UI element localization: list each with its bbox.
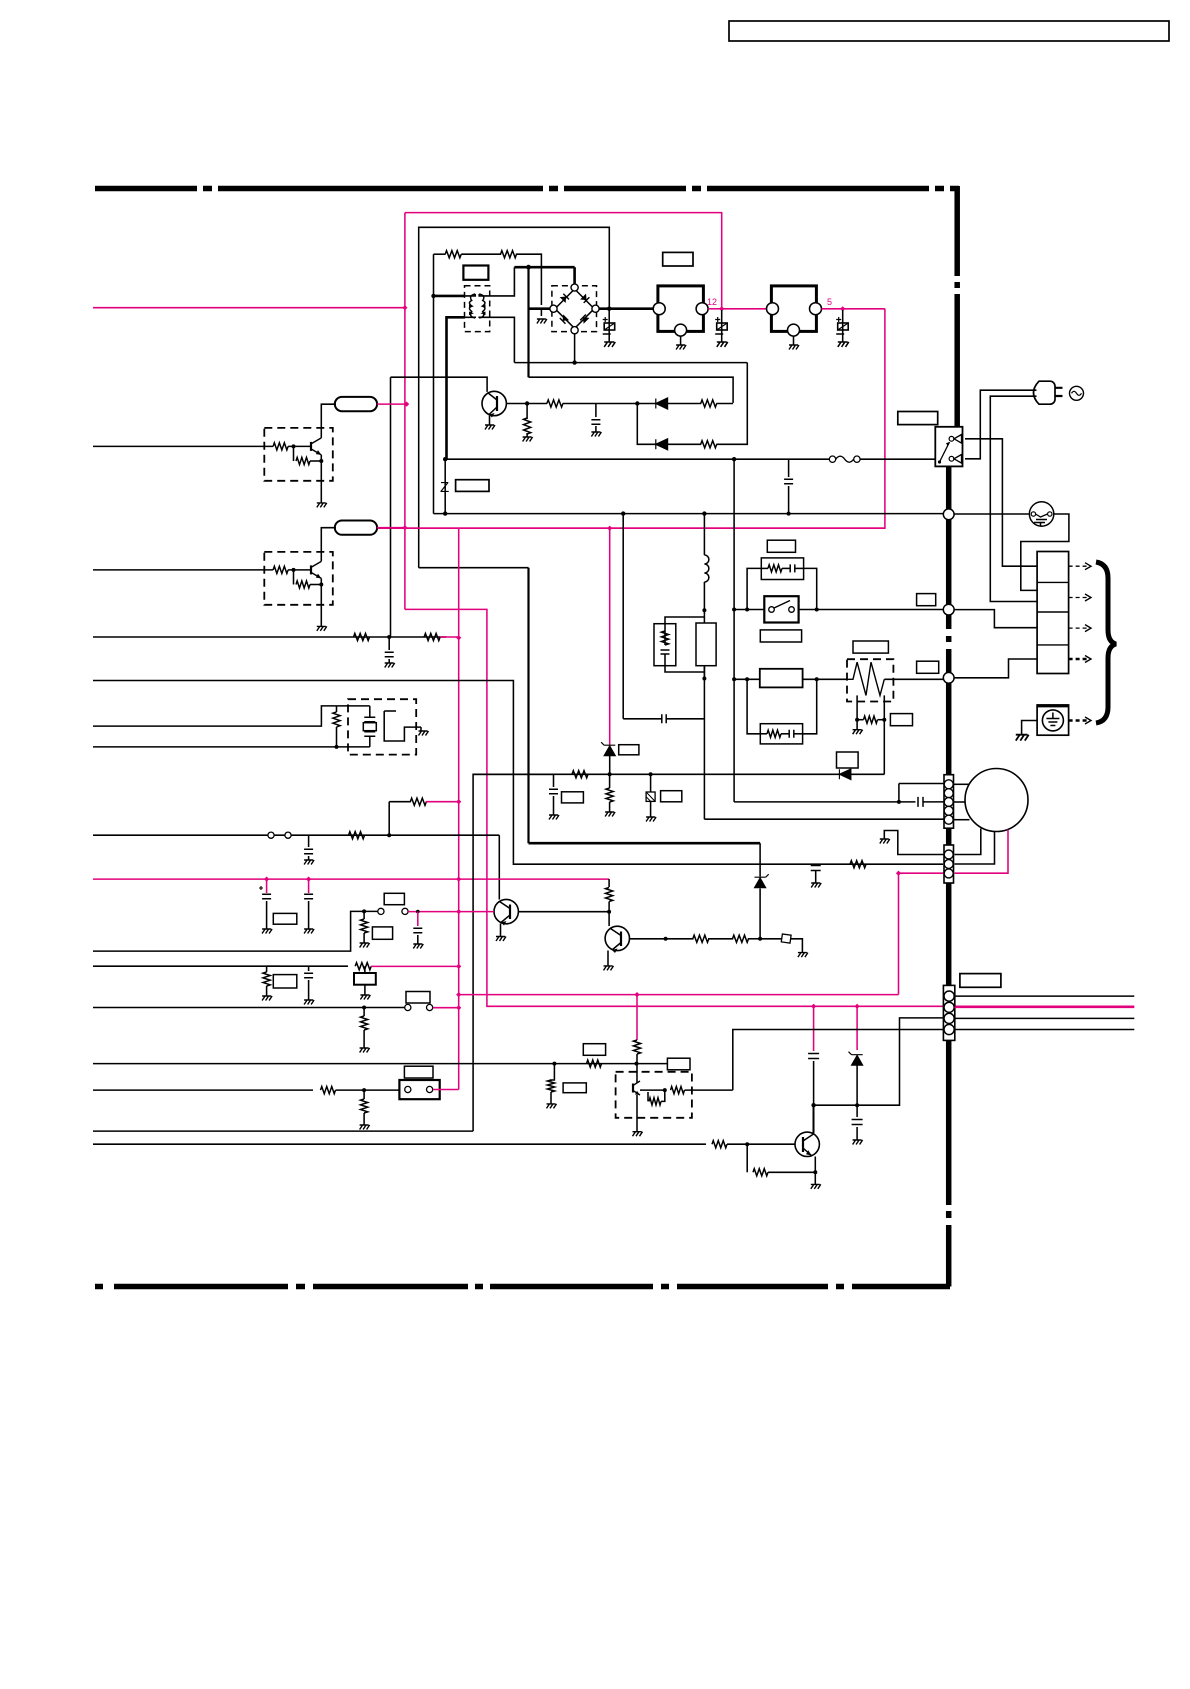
- resistor R q3 base 1: [693, 935, 709, 942]
- wire plug lead 1: [965, 390, 1037, 459]
- wire regulator U2 gnd: [793, 336, 795, 345]
- wire feedback inner rail: [529, 377, 734, 403]
- node junction 5v rail x609: [607, 526, 612, 531]
- ac source symbol: [1070, 386, 1084, 400]
- resistor R feedback lower: [701, 441, 717, 448]
- node junction Q11: [292, 568, 296, 572]
- resistor Q10 base: [273, 443, 288, 450]
- relay label box: [898, 412, 938, 425]
- transistor Q10: [310, 442, 312, 451]
- transformer T1 label box: [463, 266, 488, 280]
- zener D z1: [759, 889, 761, 939]
- ground sw2 res: [360, 943, 370, 948]
- node junction zener: [758, 937, 762, 941]
- wire Q10 emitter gnd: [320, 455, 322, 503]
- transistor Q12: [632, 1084, 634, 1093]
- wire dt3 base: [640, 1089, 665, 1091]
- wire line5: [93, 834, 499, 836]
- elco C rail a: [264, 877, 269, 882]
- thermal protector TP1: [1029, 502, 1053, 526]
- node junction line9 b: [635, 1062, 639, 1066]
- capacitor C feedback: [595, 404, 597, 418]
- ground cap 774: [549, 815, 559, 820]
- wire out pin1: [955, 995, 1135, 997]
- node junction 5: [840, 306, 845, 311]
- wire magenta logic rail: [93, 878, 609, 880]
- node junction rail 801: [456, 799, 461, 804]
- line9 label box: [667, 1058, 690, 1070]
- regulator U1 12V: [658, 286, 704, 332]
- wire heater right drop: [883, 695, 885, 774]
- wire thick aux rail: [529, 842, 761, 845]
- resistor R line5: [349, 832, 365, 839]
- ground regulator U1: [676, 345, 686, 350]
- resistor Q10 feedback: [293, 446, 295, 461]
- resistor Q11 feedback: [293, 570, 295, 585]
- capacitor C x623: [662, 714, 666, 723]
- connector block CN1: [1037, 552, 1069, 674]
- wire 813 to pin3: [814, 1018, 943, 1105]
- wire Q1 emitter gnd: [489, 416, 491, 425]
- wire 554 drop: [551, 1064, 554, 1081]
- wire cn2b pin1 left: [884, 831, 944, 855]
- wire magenta rail 1006 diamonds: [811, 1004, 816, 1009]
- wire fuse to relay: [860, 458, 936, 460]
- node junction heater right: [815, 677, 819, 681]
- svg-text:12: 12: [707, 297, 717, 307]
- diode D feedback lower: [656, 439, 668, 450]
- wire plug lead 2: [990, 396, 1037, 601]
- digital transistor Q10 dashed box: [264, 428, 333, 481]
- wire line 1131: [93, 1130, 473, 1132]
- wire line6: [93, 911, 378, 951]
- wire line10: [93, 1089, 313, 1091]
- node junction 650: [649, 772, 653, 776]
- wire dt3 emitter gnd: [636, 1095, 638, 1132]
- title block box: [729, 21, 1169, 41]
- transformer T1: [465, 286, 490, 332]
- wire border to protector: [954, 513, 1030, 515]
- wire magenta pill1 out: [377, 403, 405, 405]
- digital transistor Q11 dashed box: [264, 552, 333, 605]
- crystal X1: [369, 706, 371, 717]
- wire motor bottom 2: [955, 831, 995, 864]
- wire pin4 to DT Q12: [733, 1030, 943, 1091]
- snubber RC box: [654, 624, 676, 666]
- node border terminal protector: [943, 509, 954, 520]
- node junction neutral x704: [702, 511, 706, 515]
- resistor R line8 gnd: [363, 1008, 365, 1017]
- wire secondary thick top link: [514, 266, 574, 269]
- wire rc heater wiring: [747, 679, 760, 734]
- resistor R line10: [321, 1087, 336, 1094]
- wire Q4 collector: [813, 1105, 815, 1133]
- wire magenta 5V rail: [405, 527, 885, 529]
- connector CN2a on border: [944, 775, 954, 829]
- cap C 975: [308, 966, 310, 971]
- wire line7: [93, 965, 348, 967]
- bridge rectifier D1 diamond: [555, 289, 594, 328]
- wire Q2 emitter gnd: [500, 924, 502, 937]
- wire line8: [93, 1007, 405, 1009]
- ground q1 base: [523, 437, 533, 442]
- resistor R q4 fb: [746, 1144, 748, 1172]
- wire magenta motor link: [899, 872, 945, 874]
- wire magenta 12V to rail: [405, 609, 1134, 1006]
- connector CN2b on border: [944, 845, 954, 883]
- capacitor C motor line: [918, 797, 923, 807]
- capacitor C bridge out electrolytic: [608, 310, 610, 342]
- resistor R dt3 base: [671, 1087, 685, 1094]
- schematic border top (dash-dot): [95, 186, 959, 192]
- wire bridge left to ground: [528, 307, 550, 310]
- resistor R sw2 gnd: [363, 911, 365, 919]
- node junction z-link top: [443, 457, 447, 461]
- node junction (404.9,307.7): [402, 305, 407, 310]
- wire ground terminal lead: [1022, 721, 1038, 735]
- wire relay to connector pin1: [965, 439, 1037, 566]
- wire heater drop to cap line: [733, 679, 735, 802]
- ground 551: [547, 1104, 557, 1109]
- link Z label box: [456, 480, 489, 492]
- wire snubber wiring: [665, 617, 704, 624]
- switch SW3 label box: [406, 992, 430, 1004]
- wire regulator U1 gnd: [680, 336, 682, 345]
- node junction 857: [855, 1103, 859, 1107]
- node junction Q10 emitter: [319, 459, 323, 463]
- transistor Q1: [482, 391, 506, 415]
- wire magenta line1 to rail: [440, 636, 459, 638]
- node junction heater left: [732, 677, 736, 681]
- ground q4: [811, 1184, 821, 1189]
- crystal X1 dashed box: [348, 699, 416, 754]
- wire long dc rail x528: [527, 568, 529, 844]
- node junction sw left: [732, 608, 736, 612]
- wire q1 collector from rail: [391, 377, 488, 392]
- node junction rail 879: [456, 877, 461, 882]
- resistor R q_c base: [712, 1141, 727, 1148]
- wire out pin3: [955, 1017, 1135, 1019]
- wire magenta out pin2: [955, 1006, 1135, 1008]
- ground feedback cap: [591, 432, 601, 437]
- thermistor pill TH2: [335, 521, 377, 535]
- r975 label box: [273, 975, 297, 988]
- wire heater to border: [884, 678, 943, 680]
- capacitor C 911 magenta: [417, 912, 419, 926]
- wire heater bottom left: [856, 695, 858, 719]
- resistor R q3 base 2: [733, 935, 749, 942]
- wire Q10 collector: [321, 404, 336, 438]
- wire bead gnd: [791, 939, 803, 953]
- fuse F1: [734, 458, 830, 460]
- wire feedback lower branch: [637, 404, 656, 445]
- transistor Q4: [795, 1132, 819, 1156]
- switch SW1 label box: [767, 540, 795, 552]
- node junction heater res: [855, 718, 859, 722]
- wire q4 emitter: [814, 1157, 816, 1185]
- node junction crystal: [335, 745, 339, 749]
- wire magenta rail drop x458: [458, 528, 460, 1089]
- wire magenta rail 994: [459, 994, 899, 996]
- capacitor C across line: [788, 459, 790, 477]
- connector circles line5: [268, 832, 274, 838]
- elco rail a label box: [273, 913, 297, 924]
- rc across heater box: [760, 724, 802, 744]
- wire out pin4: [955, 1029, 1135, 1031]
- transistor Q3: [605, 926, 629, 950]
- thermal fuse label box: [917, 594, 936, 606]
- node junction z-link bottom: [443, 511, 447, 515]
- node junction sw right: [815, 608, 819, 612]
- regulator U1 label box: [663, 252, 693, 266]
- thermistor 975: [354, 973, 376, 985]
- node junction qc base: [745, 1142, 749, 1146]
- capacitor C 774: [553, 774, 555, 787]
- capacitor C 857 gnd: [852, 1120, 863, 1125]
- bridge rectifier D1 dashed box: [552, 286, 597, 332]
- node junction 12: [719, 306, 724, 311]
- wire q2q3 link: [608, 912, 610, 926]
- regulator U2 5V: [771, 286, 816, 332]
- node junction q4 emitter: [813, 1170, 817, 1174]
- node junction line1: [387, 635, 391, 639]
- diode D 774: [839, 769, 851, 780]
- node junction live x734: [732, 457, 736, 461]
- switch SW2 label box: [384, 893, 404, 904]
- wire border to cell3: [954, 610, 1037, 628]
- wire line11: [93, 1143, 706, 1145]
- wire magenta pill2 out: [377, 527, 405, 529]
- sw2 res label box: [372, 927, 392, 939]
- wire Q11 collector: [321, 528, 336, 562]
- switch SW4 label box: [404, 1066, 433, 1078]
- wire magenta sw4: [433, 1089, 459, 1091]
- resistor Q11 base: [273, 566, 288, 573]
- rc across switch box: [761, 558, 803, 580]
- node junction diode 774: [608, 772, 612, 776]
- cap 774 label box: [562, 792, 584, 803]
- wire bridge bottom to feedback: [574, 334, 576, 364]
- diode D feedback upper: [656, 398, 668, 409]
- capacitor C line1: [388, 637, 390, 650]
- capacitor C line5: [308, 835, 310, 847]
- switch SW3 circles: [405, 1004, 411, 1010]
- node junction primary: [431, 294, 435, 298]
- node junction line8: [362, 1006, 366, 1010]
- wire ac live line: [447, 458, 735, 460]
- resistor R sense 801: [410, 798, 426, 805]
- resistor R rail to base: [608, 879, 610, 887]
- resistor R q1 base: [547, 400, 563, 407]
- wire motor line 863 cap: [811, 866, 821, 871]
- resistor R heater: [864, 716, 878, 723]
- bridge pins: [571, 284, 578, 291]
- wire magenta sense to rail: [426, 801, 459, 803]
- wire secondary top pin: [479, 267, 514, 296]
- wire magenta 12V vertical x405: [404, 213, 406, 610]
- label box 774: [837, 752, 859, 768]
- node junction bridge out: [607, 307, 611, 311]
- wire line5 sense up: [388, 802, 390, 836]
- wire magenta sw2 out: [408, 911, 494, 913]
- node junction q2 base: [607, 910, 611, 914]
- switch SW4 box: [399, 1080, 439, 1099]
- svg-text:5: 5: [827, 297, 832, 307]
- wire motor bottom 1: [955, 829, 981, 855]
- node junction bridge minus: [572, 360, 576, 364]
- resistor R 975 gnd: [266, 966, 268, 972]
- wire magenta 12 node: [708, 308, 722, 310]
- wire sw to border: [799, 609, 943, 611]
- wire motor stubs: [954, 783, 970, 785]
- node junction q1 base: [525, 401, 529, 405]
- heater block box: [760, 669, 803, 688]
- resistor R q1 base gnd: [526, 404, 528, 420]
- switch SW1 lower label box: [760, 630, 801, 642]
- zener D 744 magenta fed: [609, 528, 611, 745]
- resistor R feedback upper: [701, 400, 717, 407]
- transistor Q2: [494, 899, 518, 923]
- wire crystal bracket: [384, 711, 421, 741]
- wire border to cell4: [954, 659, 1037, 678]
- connector CN3 on border: [943, 985, 954, 1040]
- transistor Q11: [310, 565, 312, 574]
- wire neutral line: [434, 513, 949, 515]
- node junction q3 base: [664, 937, 668, 941]
- resistor R dt3 fb: [647, 1092, 649, 1101]
- switch SW1: [764, 596, 798, 622]
- wire dc box top: [419, 227, 610, 567]
- label box 551: [563, 1083, 586, 1093]
- ac plug P1: [1034, 381, 1056, 404]
- wire line2: [93, 681, 943, 865]
- wire neutral drop x623: [622, 514, 624, 713]
- relay contact upper: [949, 436, 954, 441]
- capacitor C 5V electrolytic: [842, 310, 844, 342]
- wire magenta line7: [371, 965, 459, 967]
- ferrite bead FB: [760, 938, 782, 940]
- ground bridge ac: [537, 319, 547, 324]
- zener D 857: [856, 1006, 858, 1050]
- schematic border right upper: [954, 186, 960, 428]
- wire magenta 5V down: [377, 309, 885, 528]
- resistor R start 1: [445, 251, 461, 258]
- wire protector to connector: [1021, 514, 1069, 590]
- th650 label box: [661, 791, 682, 802]
- wire line3 crystal top: [93, 706, 337, 726]
- wire magenta input line y308: [93, 307, 405, 309]
- wire magenta 5 node: [822, 308, 885, 310]
- digital transistor Q12 dashed box: [616, 1072, 692, 1118]
- resistor R 609 gnd: [609, 774, 611, 788]
- wire line5 to Q collector: [498, 835, 500, 899]
- ground heater res: [856, 720, 858, 730]
- wire rail 774: [473, 774, 553, 1131]
- zener 744 label box: [619, 745, 639, 755]
- wire choke x704: [703, 514, 705, 555]
- node junction magenta 911: [416, 910, 420, 914]
- curly brace outputs: [1096, 562, 1116, 723]
- motor M1: [965, 769, 1028, 832]
- capacitor C 813 magenta: [813, 1006, 815, 1051]
- resistor R start 2: [501, 251, 517, 258]
- wire Q1 base line: [506, 403, 547, 405]
- wire dt3 collector: [636, 1064, 638, 1083]
- node junction neutral x623: [621, 511, 625, 515]
- node junction feedback: [635, 401, 639, 405]
- wire Q3 base line: [630, 938, 694, 940]
- node junction motor link: [896, 871, 901, 876]
- wire start resistor loop: [433, 254, 435, 513]
- ground line1 cap: [385, 663, 395, 668]
- wire z-link vertical: [444, 459, 446, 513]
- resistor R 637 up: [636, 1035, 638, 1040]
- node junction rail 637: [456, 635, 461, 640]
- ground th650: [646, 817, 656, 822]
- resistor R 863: [850, 861, 866, 868]
- schematic border right lower: [946, 467, 952, 1287]
- ground c911: [413, 944, 423, 949]
- heater label box: [853, 641, 888, 653]
- wire magenta sw3: [433, 1007, 459, 1009]
- wire snubber drop to pin5: [703, 679, 705, 820]
- wire line4 crystal bottom: [93, 746, 370, 748]
- node junction rail 994: [456, 992, 461, 997]
- wire bridge top feed: [573, 267, 576, 284]
- resistor R line7: [355, 963, 371, 970]
- wire live drop x734: [733, 459, 735, 679]
- ground earth: [1016, 735, 1029, 741]
- wire primary pins: [465, 294, 475, 296]
- wire secondary bottom pin: [479, 317, 514, 362]
- heater res label box: [890, 714, 912, 726]
- node junction 898 cap: [897, 800, 901, 804]
- wire ground terminal arrow: [1069, 719, 1087, 722]
- wire primary bottom to fuse line: [447, 317, 466, 459]
- node border terminal mid: [943, 604, 954, 615]
- node border terminal low: [943, 672, 954, 683]
- wire transformer primary feed: [434, 295, 466, 298]
- heater element dashed box: [847, 659, 893, 701]
- wire magenta 994 up link: [898, 873, 900, 994]
- wire line9: [93, 1063, 667, 1065]
- node junction cap line: [787, 512, 791, 516]
- ground regulator U2: [789, 345, 799, 350]
- node junction Q10: [292, 444, 296, 448]
- relay S1 box: [935, 427, 962, 467]
- node junction line5: [387, 833, 391, 837]
- node junction rail 1007: [456, 1005, 461, 1010]
- node junction sw2 branch: [362, 909, 366, 913]
- cap C rail b: [306, 877, 311, 882]
- wire cn2a pin1 left: [899, 783, 944, 785]
- wire feedback mid: [596, 403, 637, 405]
- node junction rail 966: [456, 964, 461, 969]
- switch SW2 circles: [378, 908, 384, 914]
- connector CN3 label box: [960, 974, 1001, 988]
- ground line5 cap: [304, 860, 314, 865]
- wire snubber to heater line: [703, 666, 705, 680]
- wire Q3 emitter gnd: [607, 951, 609, 966]
- resistor R line9: [587, 1060, 602, 1067]
- node junction dt3: [663, 1088, 667, 1092]
- wire Q2 base: [519, 911, 610, 913]
- ground r609: [605, 812, 615, 817]
- resistor R line1 b: [424, 633, 440, 640]
- wire line1: [93, 636, 446, 638]
- wire resistor loop to bridge ac: [540, 287, 542, 305]
- node junction x528 top: [526, 265, 531, 270]
